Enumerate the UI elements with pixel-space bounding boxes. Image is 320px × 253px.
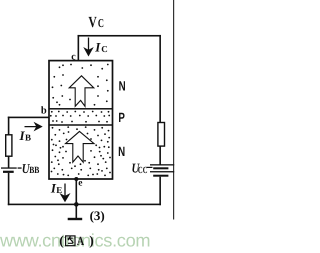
svg-text:N: N — [119, 79, 126, 94]
svg-text:E: E — [56, 185, 62, 195]
current arrow IB — [25, 123, 42, 129]
svg-text:(3): (3) — [90, 208, 105, 223]
battery UCC plates — [150, 164, 174, 165]
ground bar — [68, 218, 83, 220]
terminal e junction dot on block — [74, 177, 78, 181]
divider line N/P — [49, 108, 113, 110]
svg-text:I: I — [94, 40, 101, 55]
wire emitter vertical — [76, 179, 78, 204]
electron flow arrow top N — [69, 76, 94, 107]
wire base horizontal — [8, 117, 49, 119]
svg-text:C: C — [98, 16, 104, 30]
svg-text:N: N — [118, 144, 125, 159]
current arrow IE — [61, 184, 69, 202]
svg-text:): ) — [89, 233, 94, 248]
stipple dots bottom N region — [51, 126, 111, 176]
wire resistor to battery right — [159, 146, 161, 165]
battery UBB short thick plate — [3, 171, 14, 173]
svg-text:e: e — [78, 178, 82, 188]
resistor RC — [158, 123, 165, 147]
stipple dots top N region — [52, 64, 109, 106]
svg-text:b: b — [41, 105, 47, 116]
stipple dots P region — [50, 111, 110, 123]
svg-text:BB: BB — [29, 166, 40, 176]
wire right vertical upper — [159, 35, 161, 123]
battery UBB long plate — [1, 167, 17, 168]
resistor RB — [6, 135, 12, 156]
svg-text:C: C — [101, 44, 108, 54]
svg-text:V: V — [88, 14, 97, 31]
current arrow IC — [85, 38, 92, 56]
svg-text:B: B — [25, 133, 31, 143]
battery UBB label dash — [18, 167, 22, 168]
svg-text:P: P — [118, 110, 124, 125]
wire resistor to battery — [8, 156, 10, 168]
electron flow arrow bottom N — [66, 131, 95, 162]
wire left vertical lower — [8, 173, 10, 205]
wire left vertical upper — [8, 117, 10, 135]
svg-text:CC: CC — [138, 166, 148, 176]
transistor Q1 body outline — [49, 61, 113, 179]
svg-text:(: ( — [59, 233, 64, 248]
divider line P/N — [49, 124, 113, 126]
wire top horizontal — [78, 35, 161, 37]
junction dot bus — [74, 202, 79, 207]
svg-text:A: A — [77, 234, 84, 248]
ground stub wire — [76, 204, 78, 218]
wire right vertical lower — [159, 177, 161, 206]
wire bottom bus — [8, 204, 161, 206]
battery UCC label dash — [147, 167, 153, 168]
label (图A) — [59, 233, 94, 248]
wire collector vertical — [78, 35, 80, 61]
